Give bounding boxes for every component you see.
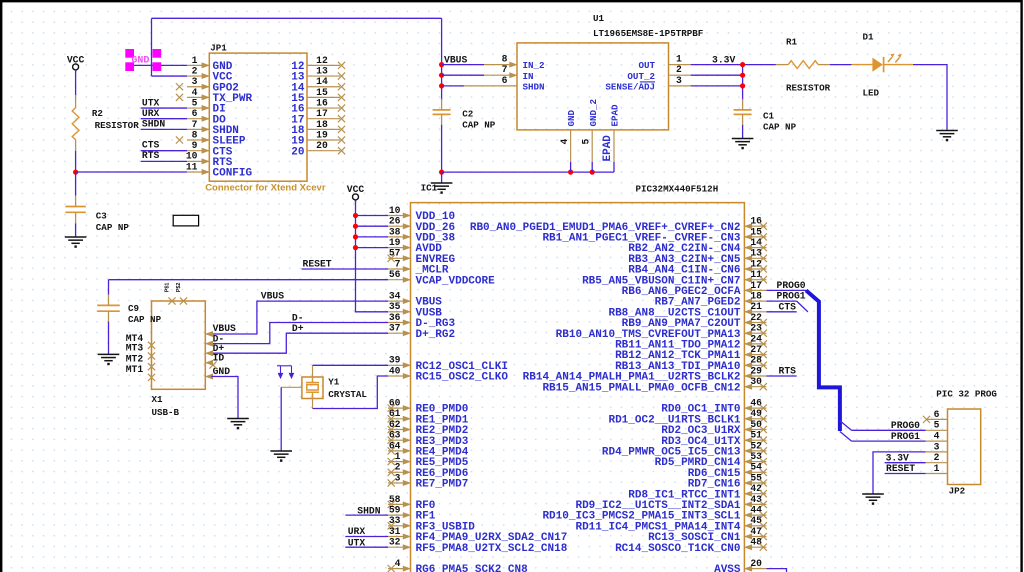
svg-text:RTS: RTS	[142, 150, 160, 161]
svg-text:3: 3	[192, 76, 198, 87]
IC1 pin 56 VCAP_VDDCORE	[388, 279, 411, 281]
wire C1 to ground	[742, 125, 744, 139]
svg-text:5: 5	[934, 420, 940, 431]
svg-text:7: 7	[502, 64, 508, 75]
wire D- from USB	[211, 323, 388, 344]
svg-text:43: 43	[750, 494, 762, 505]
JP1 pin 15 no-connect X	[338, 94, 345, 101]
JP1 pin 14 no-connect X	[338, 83, 345, 90]
IC1 pin 53 RD5_PMRD_CN14	[744, 461, 766, 463]
wire RTS to JP1 pin 10	[141, 160, 187, 162]
JP1 pin 3 GPO2 stub	[187, 86, 209, 88]
JP1 pin 18 stub	[307, 128, 340, 130]
U1 pin 4 GND stub	[570, 130, 572, 162]
svg-text:CTS: CTS	[779, 301, 797, 312]
svg-text:20: 20	[750, 558, 762, 569]
capacitor C2	[433, 110, 451, 115]
svg-text:1: 1	[676, 54, 682, 65]
wire R2 to junction	[75, 151, 77, 172]
svg-text:IN: IN	[523, 71, 534, 82]
svg-text:D+_RG2: D+_RG2	[416, 329, 456, 341]
U1 pin 2 OUT_2	[669, 74, 691, 76]
wire SENSE/ADJ to 3.3V node	[691, 85, 743, 87]
svg-text:R2: R2	[92, 108, 103, 119]
svg-text:15: 15	[750, 226, 762, 237]
junction VBUS SHDN	[439, 83, 444, 88]
wire VCAP from C9	[109, 279, 389, 281]
IC1 pin 33 RF3_USBID	[388, 525, 411, 527]
JP1 pin 8 no-connect X	[176, 136, 183, 143]
svg-text:P$1: P$1	[165, 283, 171, 293]
JP2 pin 6 no-connect X	[923, 416, 930, 423]
svg-text:PROG0: PROG0	[891, 420, 920, 431]
wire EPAD to rail	[613, 162, 615, 172]
svg-text:56: 56	[389, 269, 401, 280]
svg-text:22: 22	[750, 312, 762, 323]
svg-text:ID: ID	[213, 353, 225, 364]
IC1 pin 54 RD6_CN15	[744, 471, 766, 473]
X1 ID no-connect X	[209, 361, 216, 368]
JP2 pin 5 stub	[926, 429, 948, 431]
JP2 pin 1 stub	[926, 473, 948, 475]
wire R1 to D1	[830, 64, 852, 66]
crystal Y1 outline	[302, 377, 323, 399]
svg-text:EPAD: EPAD	[610, 104, 621, 127]
svg-text:35: 35	[389, 301, 401, 312]
IC1 pin 20 AVSS	[744, 568, 766, 570]
svg-text:34: 34	[389, 291, 401, 302]
JP1 pin 17 no-connect X	[338, 115, 345, 122]
U1 pin 8 IN_2	[484, 64, 517, 66]
IC1 pin 10 VDD_10	[388, 215, 411, 217]
svg-text:LED: LED	[863, 88, 880, 99]
IC1 pin 13 RB3_AN3_C2IN+_CN5	[744, 257, 766, 259]
regulator U1 outline	[517, 43, 669, 130]
wire GND_2 pin to rail	[591, 162, 593, 172]
IC1 pin 29 RB14_AN14_PMALH_PMA1__U2RTS_BCLK2	[744, 375, 766, 377]
svg-text:32: 32	[389, 537, 401, 548]
svg-text:3: 3	[395, 472, 401, 483]
LED D1	[852, 64, 873, 66]
junction VCC VDD_38	[353, 234, 358, 239]
IC1 pin 17 RB6_AN6_PGEC2_OCFA	[744, 289, 766, 291]
svg-text:14: 14	[316, 76, 328, 87]
ground below D1	[936, 131, 958, 137]
U1 pin 3 SENSE/ADJ	[669, 85, 691, 87]
IC1 pin 59 RF1	[388, 514, 411, 516]
svg-text:3.3V: 3.3V	[886, 453, 909, 464]
wire URX to JP1 pin 6	[141, 118, 187, 120]
wire PROG1 from pin 18	[766, 300, 796, 302]
wire SHDN to RF1	[345, 514, 388, 516]
junction GND_2 pin 5	[590, 170, 595, 175]
IC1 pin 1 RE5_PMD5	[388, 461, 411, 463]
wire Y1 case to ground	[280, 387, 282, 451]
svg-text:C2: C2	[462, 109, 473, 120]
IC1 pin 35 VUSB	[388, 311, 411, 313]
svg-text:38: 38	[389, 226, 401, 237]
IC1 pin 34 VBUS	[388, 300, 411, 302]
svg-text:4: 4	[934, 431, 940, 442]
X1 pin ID	[205, 362, 211, 364]
svg-text:16: 16	[316, 97, 328, 108]
svg-text:U1: U1	[593, 13, 605, 24]
IC1 pin 7 _MCLR	[388, 268, 411, 270]
svg-text:CTS: CTS	[142, 139, 160, 150]
svg-text:45: 45	[750, 515, 762, 526]
IC1 pin 18 RB7_AN7_PGED2	[744, 300, 766, 302]
svg-text:D-: D-	[292, 312, 304, 323]
Y1 pin 1 stub	[312, 365, 314, 377]
svg-text:12: 12	[316, 55, 328, 66]
svg-text:RG6_PMA5_SCK2_CN8: RG6_PMA5_SCK2_CN8	[416, 564, 529, 572]
JP1 pin 14 stub	[307, 86, 340, 88]
IC1 pin 48 RC14_SOSCO_T1CK_CN0	[744, 546, 766, 548]
IC1 pin 42 RD8_IC1_RTCC_INT1	[744, 493, 766, 495]
IC1 pin 47 RC13_SOSCI_CN1	[744, 536, 766, 538]
svg-text:LT1965EMS8E-1P5TRPBF: LT1965EMS8E-1P5TRPBF	[593, 28, 703, 39]
wire D1 to ground corner	[913, 65, 947, 131]
svg-text:UTX: UTX	[142, 97, 160, 108]
wire VBUS to U1 IN_2	[442, 64, 484, 66]
svg-text:D+: D+	[292, 323, 304, 334]
svg-text:1: 1	[395, 451, 401, 462]
svg-text:1: 1	[934, 463, 940, 474]
wire PROG1 to JP2 pin 4	[852, 440, 926, 442]
IC1 pin 16 RB0_AN0_PGED1_EMUD1_PMA6_VREF+_CVREF+_CN2	[744, 225, 766, 227]
IC1 pin 12 RB4_AN4_C1IN-_CN6	[744, 268, 766, 270]
svg-text:MT3: MT3	[126, 343, 144, 354]
connector JP1 outline	[209, 53, 307, 181]
JP1 pin 12 no-connect X	[338, 62, 345, 69]
svg-text:USB-B: USB-B	[152, 407, 180, 418]
connector JP2 outline	[948, 409, 981, 485]
IC1 pin 14 RB2_AN2_C2IN-_CN4	[744, 247, 766, 249]
svg-text:44: 44	[750, 505, 762, 516]
svg-text:37: 37	[389, 323, 401, 334]
U1 pin 1 OUT	[669, 64, 691, 66]
svg-text:R1: R1	[786, 37, 798, 48]
svg-text:RESET: RESET	[886, 463, 915, 474]
IC1 pin 45 RD11_IC4_PMCS1_PMA14_INT4	[744, 525, 766, 527]
svg-text:VBUS: VBUS	[444, 54, 467, 65]
unnamed rectangle marker	[173, 215, 198, 226]
JP1 pin 19 no-connect X	[338, 136, 345, 143]
JP1 pin 19 stub	[307, 139, 340, 141]
svg-text:CAP NP: CAP NP	[96, 222, 130, 233]
svg-text:18: 18	[316, 119, 328, 130]
svg-text:RTS: RTS	[779, 366, 797, 377]
wire VBUS to U1 SHDN	[442, 85, 465, 87]
wire CTS from pin 21	[766, 311, 796, 313]
svg-text:6: 6	[934, 409, 940, 420]
svg-text:GND: GND	[131, 55, 149, 66]
wire RESET to _MCLR	[302, 268, 389, 270]
U1 pin 7 IN	[484, 74, 517, 76]
wire URX to RF4	[345, 536, 388, 538]
svg-text:7: 7	[192, 119, 198, 130]
IC1 pin 24 RB11_AN11_TDO_PMA12	[744, 343, 766, 345]
wire Y1 to RC15_OSC2_CLKO	[313, 376, 389, 409]
svg-text:53: 53	[750, 451, 762, 462]
svg-text:18: 18	[750, 291, 762, 302]
JP1 pin 17 stub	[307, 118, 340, 120]
wire VCC to R2	[75, 70, 77, 95]
JP1 pin 15 stub	[307, 96, 340, 98]
svg-text:36: 36	[389, 312, 401, 323]
svg-text:URX: URX	[142, 108, 160, 119]
svg-text:VBUS: VBUS	[261, 290, 284, 301]
JP1 pin 5 DI stub	[187, 107, 209, 109]
JP1 pin 18 no-connect X	[338, 126, 345, 133]
wire VBUS from USB	[211, 301, 388, 334]
IC1 pin 4 RG6_PMA5_SCK2_CN8	[388, 568, 411, 570]
capacitor C3	[65, 207, 85, 213]
svg-text:MT1: MT1	[126, 364, 144, 375]
svg-text:10: 10	[186, 151, 198, 162]
junction GND pin 4	[568, 170, 573, 175]
svg-text:24: 24	[750, 333, 762, 344]
svg-text:JP2: JP2	[949, 485, 966, 496]
svg-text:P$2: P$2	[176, 283, 182, 293]
svg-text:48: 48	[750, 537, 762, 548]
IC1 pin 57 ENVREG	[388, 257, 411, 259]
wire 3.3V vertical	[742, 65, 744, 100]
wire VCC to VDD_38	[356, 236, 389, 238]
IC1 pin 26 VDD_26	[388, 225, 411, 227]
svg-text:IC1: IC1	[421, 183, 438, 194]
JP1 pin 16 no-connect X	[338, 104, 345, 111]
IC1 pin 62 RE2_PMD2	[388, 429, 411, 431]
svg-text:MT2: MT2	[126, 353, 144, 364]
svg-text:RB15_AN15_PMALL_PMA0_OCFB_CN12: RB15_AN15_PMALL_PMA0_OCFB_CN12	[542, 382, 740, 394]
svg-text:4: 4	[559, 139, 570, 145]
wire X1 GND to ground	[211, 377, 238, 419]
svg-text:CAP NP: CAP NP	[763, 122, 797, 133]
svg-text:Y1: Y1	[328, 377, 340, 388]
svg-text:8: 8	[192, 129, 198, 140]
svg-text:46: 46	[750, 398, 762, 409]
IC1 pin 30 RB15_AN15_PMALL_PMA0_OCFB_CN12	[744, 386, 766, 388]
svg-text:PROG1: PROG1	[777, 291, 806, 302]
wire GND pin to rail	[570, 162, 572, 172]
svg-text:AVSS: AVSS	[714, 564, 741, 572]
IC1 pin 52 RD4_PMWR_OC5_IC5_CN13	[744, 450, 766, 452]
svg-text:2: 2	[676, 64, 682, 75]
svg-text:VCAP_VDDCORE: VCAP_VDDCORE	[416, 275, 496, 287]
ground rail wire (EPAD)	[442, 171, 614, 173]
JP2 pin 2 stub	[926, 462, 948, 464]
wire VCC rail down to VUSB	[356, 200, 389, 312]
svg-text:RESISTOR: RESISTOR	[786, 83, 831, 94]
wire VBUS top run	[152, 17, 442, 19]
svg-text:D1: D1	[863, 32, 875, 43]
svg-text:RC15_OSC2_CLKO: RC15_OSC2_CLKO	[416, 372, 509, 384]
wire junction to C3	[75, 172, 77, 195]
svg-text:9: 9	[192, 140, 198, 151]
wire UTX to JP1 pin 5	[141, 107, 187, 109]
wire C9 to ground	[108, 322, 110, 355]
IC1 pin 15 RB1_AN1_PGEC1_VREF-_CVREF-_CN3	[744, 236, 766, 238]
svg-text:30: 30	[750, 376, 762, 387]
wire stub to ground symbol	[441, 172, 443, 183]
wire VCC to AVDD	[356, 247, 389, 249]
bus entry ramp PROG1	[797, 301, 808, 312]
JP1 pin 4 no-connect X	[176, 94, 183, 101]
JP1 pin 10 RTS stub	[187, 160, 209, 162]
svg-text:3: 3	[676, 75, 682, 86]
svg-text:6: 6	[192, 108, 198, 119]
svg-text:20: 20	[316, 140, 328, 151]
IC1 pin 43 RD9_IC2__U1CTS__INT2_SDA1	[744, 503, 766, 505]
JP1 pin 13 stub	[307, 75, 340, 77]
svg-text:10: 10	[389, 205, 401, 216]
junction VCC VDD_10	[353, 213, 358, 218]
wire Y1 to RC12_OSC1_CLKI	[313, 364, 389, 366]
svg-text:GND: GND	[566, 109, 577, 126]
svg-text:Connector for Xtend Xcevr: Connector for Xtend Xcevr	[205, 182, 326, 193]
Y1 pin 2 stub	[312, 399, 314, 409]
JP1 pin 2 VCC stub	[187, 75, 209, 77]
svg-text:C9: C9	[128, 303, 139, 314]
junction 3.3V SENSE	[740, 83, 745, 88]
svg-text:55: 55	[750, 472, 762, 483]
IC1 pin 55 RD7_CN16	[744, 482, 766, 484]
svg-text:EPAD: EPAD	[602, 135, 614, 162]
IC1 pin 39 RC12_OSC1_CLKI	[388, 364, 411, 366]
svg-text:8: 8	[502, 54, 508, 65]
IC1 pin 46 RD0_OC1_INT0	[744, 407, 766, 409]
svg-text:39: 39	[389, 355, 401, 366]
IC1 pin 22 RB9_AN9_PMA7_C2OUT	[744, 322, 766, 324]
svg-text:RESET: RESET	[303, 258, 332, 269]
junction R2/C3/CONFIG	[73, 170, 78, 175]
X1 pin D-	[205, 343, 211, 345]
wire VCC vertical to JP1 pin 2	[151, 18, 153, 76]
svg-text:31: 31	[389, 526, 401, 537]
IC1 pin 28 RB13_AN13_TDI_PMA10	[744, 364, 766, 366]
JP1 pin 9 CTS stub	[187, 150, 209, 152]
bus PROG	[806, 290, 840, 431]
svg-text:7: 7	[395, 258, 401, 269]
IC1 pin 11 RB5_AN5_VBUSON_C1IN+_CN7	[744, 279, 766, 281]
svg-text:52: 52	[750, 440, 762, 451]
IC1 pin 44 RD10_IC3_PMCS2_PMA15_INT3_SCL1	[744, 514, 766, 516]
svg-text:PIC32MX440F512H: PIC32MX440F512H	[636, 184, 719, 195]
JP1 pin 12 stub	[307, 64, 340, 66]
wire PROG0 to JP2 pin 5	[852, 429, 926, 431]
svg-text:RE7_PMD7: RE7_PMD7	[416, 479, 469, 491]
junction 3.3V OUT_2	[740, 73, 745, 78]
svg-text:PIC 32 PROG: PIC 32 PROG	[936, 388, 997, 399]
IC1 pin 32 RF5_PMA8_U2TX_SCL2_CN18	[388, 546, 411, 548]
svg-text:RC14_SOSCO_T1CK_CN0: RC14_SOSCO_T1CK_CN0	[615, 543, 740, 555]
svg-text:59: 59	[389, 505, 401, 516]
svg-text:28: 28	[750, 355, 762, 366]
ground below C9	[98, 354, 120, 360]
svg-text:4: 4	[395, 558, 401, 569]
IC1 pin 38 VDD_38	[388, 236, 411, 238]
wire VCC to VDD_10	[356, 215, 389, 217]
svg-text:CONFIG: CONFIG	[213, 168, 253, 180]
wire RTS from pin 29	[766, 375, 796, 377]
IC1 pin 51 RD3_OC4_U1TX	[744, 439, 766, 441]
wire D+ from USB	[211, 333, 388, 353]
wire U1 OUT to R1 (3.3V)	[691, 64, 776, 66]
wire GND to JP1 pin 1	[134, 64, 187, 66]
wire C2 to ground rail	[441, 125, 443, 172]
supply flag GND (highlighted)	[125, 49, 161, 71]
capacitor C9	[108, 280, 110, 295]
svg-text:5: 5	[192, 97, 198, 108]
svg-text:X1: X1	[152, 394, 164, 405]
U1 EPAD stub	[613, 130, 615, 162]
svg-text:17: 17	[750, 280, 762, 291]
svg-text:11: 11	[750, 269, 762, 280]
svg-text:6: 6	[502, 75, 508, 86]
svg-text:CRYSTAL: CRYSTAL	[328, 389, 367, 400]
svg-text:26: 26	[389, 216, 401, 227]
svg-text:C1: C1	[763, 110, 775, 121]
svg-text:CAP NP: CAP NP	[128, 314, 162, 325]
resistor R2	[75, 95, 77, 108]
svg-text:47: 47	[750, 526, 762, 537]
svg-text:OUT_2: OUT_2	[627, 71, 655, 82]
junction VBUS IN	[439, 73, 444, 78]
wire JP2 pin 3 to ground	[873, 452, 926, 494]
svg-text:15: 15	[316, 87, 328, 98]
svg-text:27: 27	[750, 344, 762, 355]
svg-text:PROG0: PROG0	[777, 280, 806, 291]
X1 pin D+	[205, 352, 211, 354]
svg-text:2: 2	[395, 462, 401, 473]
JP1 pin 20 stub	[307, 150, 340, 152]
svg-text:OUT: OUT	[638, 60, 655, 71]
JP2 pin 4 stub	[926, 440, 948, 442]
JP1 pin 20 no-connect X	[338, 147, 345, 154]
svg-text:16: 16	[750, 216, 762, 227]
IC1 pin 31 RF4_PMA9_U2RX_SDA2_CN17	[388, 536, 411, 538]
svg-text:17: 17	[316, 108, 328, 119]
IC1 pin 37 D+_RG2	[388, 332, 411, 334]
svg-text:5: 5	[580, 139, 591, 145]
crystal Y1 symbol	[306, 377, 319, 399]
svg-text:RF5_PMA8_U2TX_SCL2_CN18: RF5_PMA8_U2TX_SCL2_CN18	[416, 543, 568, 555]
svg-text:13: 13	[316, 65, 328, 76]
microcontroller IC1 outline	[411, 203, 745, 572]
JP1 pin 1 GND stub	[187, 64, 209, 66]
IC1 pin 2 RE6_PMD6	[388, 471, 411, 473]
JP2 pin 3 stub	[926, 451, 948, 453]
X1 pin VBUS	[205, 333, 211, 335]
off-sheet arrows at Y1	[277, 366, 294, 378]
svg-text:C3: C3	[96, 211, 108, 222]
capacitor C1	[734, 110, 752, 115]
JP1 pin 7 SHDN stub	[187, 128, 209, 130]
svg-text:13: 13	[750, 248, 762, 259]
JP1 pin 13 no-connect X	[338, 72, 345, 79]
wire VBUS to U1 IN	[442, 74, 484, 76]
svg-text:SHDN: SHDN	[523, 82, 545, 93]
wire OUT_2 to 3.3V node	[691, 74, 743, 76]
JP1 pin 8 SLEEP stub	[187, 139, 209, 141]
svg-text:1: 1	[192, 55, 198, 66]
JP1 pin 3 no-connect X	[176, 83, 183, 90]
svg-text:JP1: JP1	[210, 43, 227, 54]
svg-text:14: 14	[750, 237, 762, 248]
svg-text:CAP NP: CAP NP	[462, 120, 496, 131]
bus exit ramp PROG0	[840, 421, 852, 431]
